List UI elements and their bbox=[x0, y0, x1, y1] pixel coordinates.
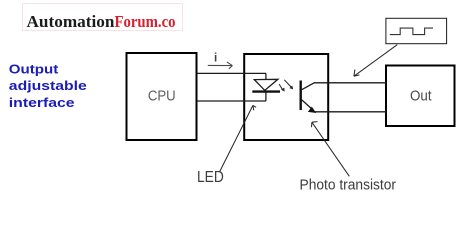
light arrow 2 bbox=[284, 80, 293, 90]
svg-text:i: i bbox=[214, 52, 217, 64]
LED D1 cathode lead bbox=[265, 92, 267, 101]
wire optocoupler to Out bottom bbox=[314, 111, 386, 113]
svg-text:Out: Out bbox=[410, 89, 432, 105]
block CPU bbox=[127, 53, 197, 140]
svg-text:Forum.co: Forum.co bbox=[115, 12, 176, 31]
wire CPU to optocoupler bottom bbox=[198, 100, 267, 102]
phototransistor Q1 base bar bbox=[300, 81, 302, 111]
svg-text:Automation: Automation bbox=[27, 12, 116, 31]
block optocoupler U1 bbox=[244, 54, 328, 140]
block Out bbox=[386, 66, 455, 127]
LED D1 cathode bar bbox=[252, 90, 280, 92]
pointer arrow from label LED to LED bbox=[220, 105, 257, 172]
logo frame bbox=[23, 4, 183, 31]
svg-text:interface: interface bbox=[9, 95, 75, 110]
LED D1 anode lead bbox=[265, 73, 267, 79]
phototransistor Q1 emitter bbox=[302, 100, 317, 113]
logo text AutomationForum.co bbox=[27, 12, 176, 31]
svg-text:Output: Output bbox=[9, 61, 59, 76]
phototransistor Q1 collector bbox=[302, 83, 315, 90]
svg-text:adjustable: adjustable bbox=[9, 78, 87, 93]
current arrow i bbox=[208, 52, 233, 68]
square wave source box bbox=[386, 18, 447, 43]
light arrow 1 bbox=[279, 84, 285, 92]
svg-text:CPU: CPU bbox=[148, 89, 176, 105]
pointer arrow from square wave source to wire bbox=[354, 45, 397, 76]
svg-text:Photo transistor: Photo transistor bbox=[300, 177, 397, 193]
pointer arrow from label Photo transistor to phototransistor bbox=[312, 122, 350, 177]
label: Output adjustable interface bbox=[9, 61, 87, 109]
LED D1 triangle bbox=[254, 79, 278, 90]
label Photo transistor bbox=[300, 177, 397, 193]
label LED bbox=[197, 169, 224, 186]
wire optocoupler to Out top bbox=[314, 82, 386, 84]
wire CPU to optocoupler top bbox=[198, 72, 267, 74]
